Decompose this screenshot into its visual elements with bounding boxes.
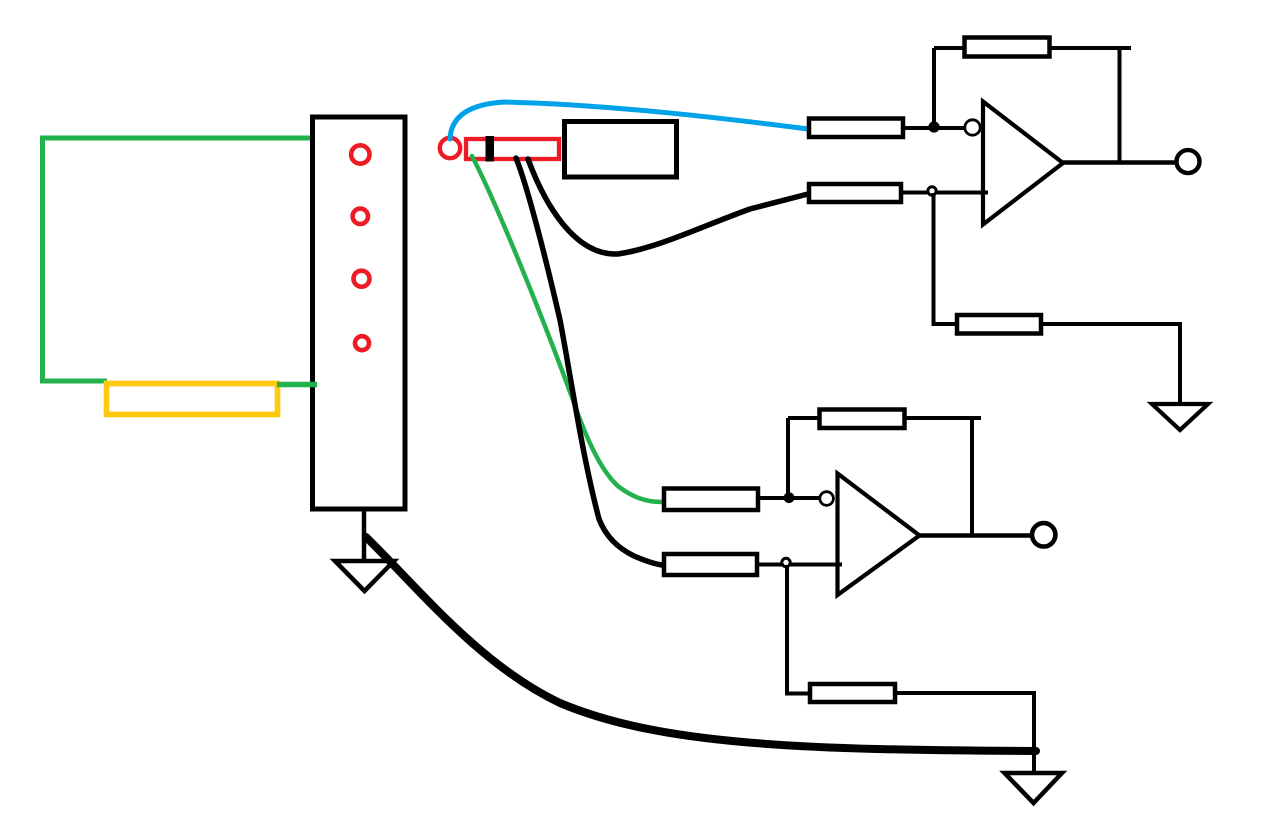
resistor R8 (lower amp ground leg) [810,684,895,702]
battery/fuse F1 (yellow) [107,384,278,415]
resistor R7 (lower amp feedback) [820,410,905,429]
pin 3 (red) [354,271,370,287]
pin 1 (red) [351,145,369,163]
wire feedback right vertical U2 [970,418,974,535]
wire U2 inverting down [787,565,810,694]
wire R6 to op-amp U2 [757,563,842,567]
pin 2 (red) [353,209,368,224]
op-amp U1 triangle [983,102,1063,225]
wire R1 to op-amp U1 input [903,126,964,130]
resistor R3 (upper amp feedback) [965,38,1050,57]
wire green loop left [43,138,314,381]
wire blue (tip signal) [450,102,808,139]
resistor R4 (upper amp ground leg) [957,315,1041,334]
pin 4 (red) [355,336,369,350]
wire feedback left vertical U1 [932,48,936,127]
wire U2 output [920,533,1032,538]
wire green stub right of battery [277,382,317,388]
resistor R1 (upper amp non-inverting input) [809,119,903,138]
output terminal U1 [1177,150,1200,173]
input bubble U1 [965,120,980,135]
wire R2 to op-amp U1 [901,191,988,195]
resistor R6 (lower amp inverting input) [664,554,757,575]
small junction circle U2 inverting [782,558,790,566]
junction dot lower amp input [784,492,795,503]
wire feedback top left U2 [788,416,819,420]
wire feedback top right U2 [904,416,981,420]
ground GND1 [335,561,394,591]
resistor R2 (upper amp inverting input) [809,184,901,202]
junction dot upper amp input [928,121,939,132]
wire thick ground bus [366,537,1036,751]
connector J1 (terminal strip) [313,117,406,509]
output terminal U2 [1032,523,1055,546]
jack plug P1 shaft (red) [466,139,559,159]
wire feedback top left U1 [934,46,963,50]
ground GND2 [1152,404,1208,430]
jack body box [565,122,677,178]
input bubble U2 [820,492,834,506]
small junction circle U1 inverting [928,187,936,195]
wire feedback right vertical U1 [1118,48,1122,163]
wire U1 output [1063,160,1176,165]
wire feedback top right U1 [1050,46,1131,50]
wire R8 to ground GND3 [895,693,1034,774]
ground GND3 [1005,773,1063,803]
resistor R5 (lower amp non-inverting input) [664,489,758,511]
wire black sleeve to upper amp inverting input [528,159,808,254]
op-amp U2 triangle [838,474,920,596]
wire feedback left vertical U2 [786,418,790,497]
jack plug P1 insulator bar [486,136,495,162]
jack plug P1 sleeve ring (red) [440,138,460,158]
wire black sleeve to lower amp inverting input [516,158,662,565]
wire U1 inverting down [934,193,958,324]
wire R4 to ground GND2 [1041,324,1180,405]
wire connector to ground [362,511,367,562]
wire green (ring signal to lower amp) [472,156,662,502]
wire R5 to op-amp U2 [758,496,820,500]
